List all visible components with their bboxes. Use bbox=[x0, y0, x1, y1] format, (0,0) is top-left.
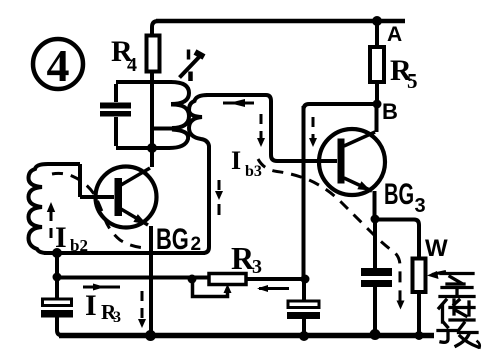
transformer tertiary coil L3 (right) bbox=[189, 95, 209, 253]
label Ib2 bbox=[55, 221, 88, 255]
svg-text:5: 5 bbox=[407, 69, 418, 93]
svg-text:b2: b2 bbox=[70, 236, 88, 255]
resistor R3 bbox=[209, 274, 246, 285]
dashed current arrow (down, x=313) bbox=[309, 117, 317, 147]
char 低 bbox=[439, 300, 474, 322]
label R4 bbox=[111, 35, 137, 76]
node B dot bbox=[373, 100, 382, 109]
junction dot tank bottom bbox=[147, 143, 157, 153]
junction dot x57 y277 bbox=[53, 273, 62, 282]
wire R5 bottom lead bbox=[375, 82, 379, 104]
junction dot R3 left bbox=[188, 275, 197, 284]
svg-text:4: 4 bbox=[127, 54, 137, 76]
junction dot rail output cap bbox=[370, 329, 381, 340]
resistor R5 bbox=[370, 47, 384, 82]
svg-text:I: I bbox=[85, 289, 97, 322]
wire R3 wiper hook bbox=[193, 281, 232, 297]
arrow under wire (current into R3) bbox=[257, 285, 289, 292]
wire R3 right to node bbox=[246, 277, 305, 281]
junction dot rail center cap bbox=[299, 331, 309, 341]
wiper arrow W bbox=[427, 271, 446, 279]
transformer secondary coil L2 (left) bbox=[29, 164, 81, 253]
resistor R4 bbox=[147, 36, 160, 72]
arrow on L3 top wire bbox=[223, 99, 254, 107]
wire bottom ground rail bbox=[59, 333, 434, 339]
wire corner to BG3 base bbox=[271, 155, 337, 161]
svg-text:I: I bbox=[231, 146, 241, 175]
label IR3 with arrow bbox=[83, 284, 121, 327]
junction dot rail BG2 emitter bbox=[145, 330, 156, 341]
wire BG3 collector to node B bbox=[375, 106, 379, 132]
wire BG3 emitter lead bbox=[373, 191, 377, 219]
text 至低放 (to audio amplifier) drawn strokes bbox=[438, 274, 480, 348]
junction dot rail W bbox=[415, 331, 424, 340]
svg-text:3: 3 bbox=[113, 309, 121, 326]
node A dot bbox=[372, 16, 382, 26]
potentiometer W bbox=[413, 259, 426, 293]
svg-text:3: 3 bbox=[252, 256, 262, 278]
transformer primary coil L1 bbox=[169, 82, 189, 148]
wire to BG2 collector bbox=[150, 148, 154, 167]
dashed current arrow Ib3 (down, x=261) bbox=[257, 114, 265, 147]
wire W bottom lead bbox=[417, 292, 421, 335]
wire emitter node to W bbox=[375, 220, 419, 259]
dashed current path Ib3/Ie3 (curve to output) bbox=[258, 159, 400, 301]
svg-text:W: W bbox=[425, 235, 448, 262]
arrowhead output path down bbox=[397, 301, 405, 310]
circled figure number 4 bbox=[33, 39, 83, 91]
wire L3 top to right corner bbox=[206, 95, 271, 155]
capacitor C4 (output) bbox=[361, 221, 392, 334]
switch mark (broken lead with slash) bbox=[180, 50, 205, 82]
char 放 bbox=[438, 323, 480, 348]
wire R5 top lead bbox=[375, 21, 379, 47]
char 至 bbox=[440, 274, 474, 297]
dashed current arrow (down beside L3) bbox=[215, 180, 223, 215]
wire tank bottom bbox=[116, 146, 170, 150]
svg-text:4: 4 bbox=[47, 40, 70, 91]
junction dot emitter node bbox=[371, 215, 380, 224]
capacitor C3 (center) bbox=[287, 281, 320, 334]
label BG2 bbox=[156, 222, 201, 256]
wire R4 top lead bbox=[152, 21, 158, 36]
junction dot left coil bottom bbox=[52, 248, 62, 258]
label R3 bbox=[231, 240, 262, 278]
wire top supply rail bbox=[156, 19, 405, 24]
svg-text:BG: BG bbox=[156, 222, 189, 256]
wire BG2 emitter lead bbox=[149, 226, 153, 334]
wire junction drop (x=57) bbox=[55, 253, 59, 277]
dashed current arrow (down along emitter) bbox=[138, 291, 146, 328]
wire BG2 base lead bbox=[80, 195, 114, 199]
dashed current path Ib2 (curve to emitter) bbox=[52, 173, 146, 248]
svg-text:b3: b3 bbox=[245, 163, 262, 180]
label Ib3 bbox=[231, 146, 262, 180]
wire node-B branch vertical (x=304) bbox=[302, 106, 306, 279]
label R5 bbox=[390, 54, 418, 93]
capacitor C2 (left electrolytic) bbox=[41, 279, 73, 336]
wire tank top bbox=[116, 80, 172, 84]
wire R4 bottom lead down through tank tap bbox=[150, 72, 154, 148]
dashed current arrow Ib2 (up inside coil) bbox=[47, 202, 55, 238]
transistor BG3 bbox=[319, 129, 385, 195]
svg-text:I: I bbox=[55, 221, 67, 254]
wire coil tap bbox=[152, 127, 172, 131]
svg-text:BG: BG bbox=[384, 178, 414, 211]
svg-text:B: B bbox=[382, 99, 398, 124]
junction dot R3 right bbox=[301, 275, 310, 284]
wire node B horizontal bbox=[304, 104, 378, 110]
label BG3 bbox=[384, 178, 426, 217]
wire long bottom return (y=253) bbox=[44, 251, 205, 255]
capacitor C1 (tank capacitor) bbox=[100, 84, 131, 146]
wire bias rail y=277 to R3 bbox=[57, 276, 209, 280]
svg-text:A: A bbox=[387, 23, 402, 46]
svg-text:3: 3 bbox=[415, 195, 426, 217]
transistor BG2 bbox=[96, 167, 157, 228]
